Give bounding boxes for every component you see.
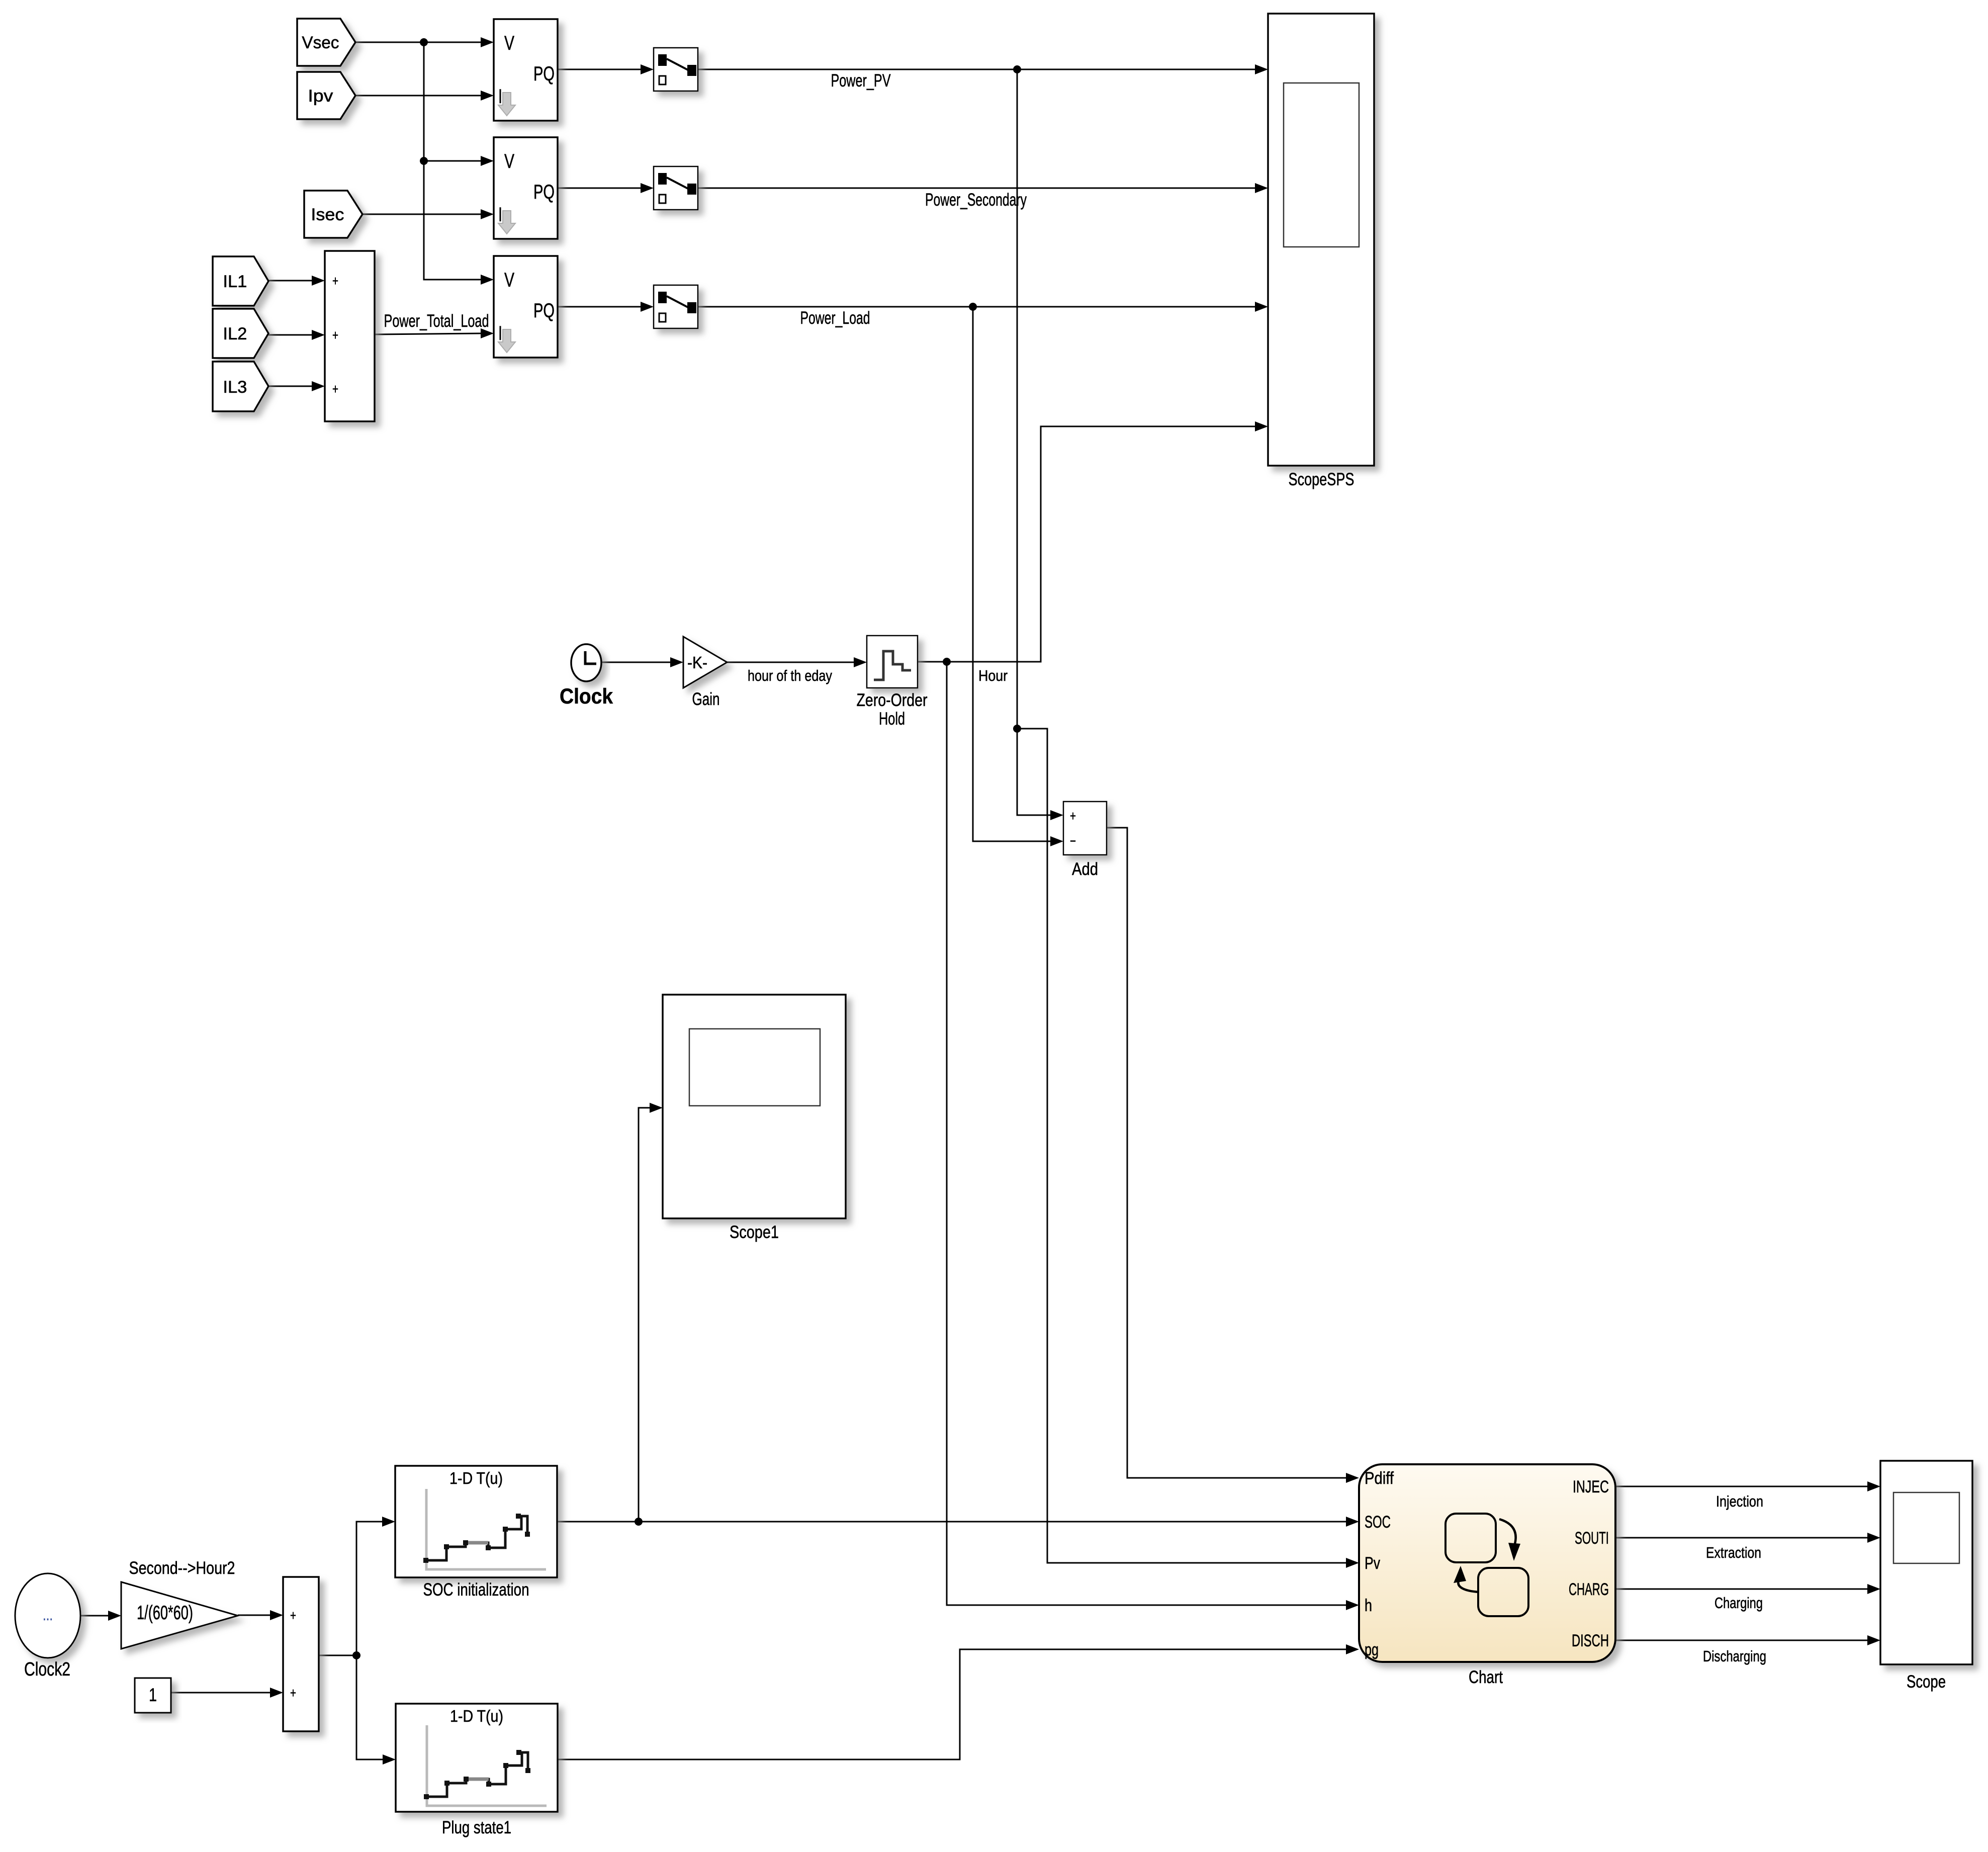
node Power_PV branch [1013, 65, 1021, 73]
svg-text:V: V [504, 269, 514, 291]
wire Power_Total_Load sum to PQ3 I [375, 333, 481, 334]
svg-text:Extraction: Extraction [1706, 1544, 1761, 1561]
svg-text:Charging: Charging [1714, 1594, 1763, 1612]
stateflow chart block [1359, 1464, 1615, 1662]
clock block Clock2 [15, 1573, 80, 1658]
svg-text:h: h [1365, 1596, 1372, 1615]
svg-text:Add: Add [1072, 859, 1098, 879]
node Hour to h branch [943, 658, 951, 666]
wire IL1 to sum [268, 280, 312, 282]
sum2 block adder [283, 1577, 319, 1731]
PQ block 3 power measurement Load [494, 256, 558, 358]
svg-text:1-D T(u): 1-D T(u) [450, 1707, 503, 1725]
svg-text:Ipv: Ipv [308, 86, 333, 106]
input port Isec [304, 191, 363, 238]
svg-text:ScopeSPS: ScopeSPS [1289, 470, 1354, 489]
svg-text:Power_Secondary: Power_Secondary [925, 190, 1027, 210]
svg-text:I: I [498, 85, 502, 108]
svg-text:PQ: PQ [533, 181, 555, 203]
sum block Power_Total_Load adder [325, 251, 375, 421]
wire Isec to PQ2 I [363, 214, 481, 215]
chart transition arrow down [1499, 1519, 1516, 1544]
svg-text:+: + [332, 381, 338, 397]
wire Chart INJEC to Scope in1, label Injection [1615, 1486, 1867, 1487]
gain block Gain -K- [683, 637, 727, 688]
svg-text:Hour: Hour [978, 667, 1008, 684]
svg-text:Injection: Injection [1716, 1492, 1763, 1510]
scope block Scope [1880, 1461, 1972, 1664]
node on Vsec wire [420, 38, 428, 46]
svg-text:Scope: Scope [1907, 1672, 1946, 1692]
svg-text:IL2: IL2 [223, 324, 247, 343]
svg-text:Pdiff: Pdiff [1365, 1469, 1394, 1488]
svg-text:Hold: Hold [879, 709, 905, 729]
wire Power_PV switch1 to ScopeSPS in1 [698, 69, 1255, 70]
node SOC to Scope1 branch [635, 1518, 643, 1526]
svg-text:SOC: SOC [1365, 1513, 1391, 1532]
svg-text:Plug state1: Plug state1 [442, 1818, 511, 1837]
wire IL2 to sum [268, 334, 312, 336]
scope block ScopeSPS [1268, 14, 1374, 466]
PQ block 2 power measurement Secondary [494, 137, 558, 239]
wire Clock to Gain [601, 662, 670, 663]
wire Chart DISCH to Scope in4, label Discharging [1615, 1640, 1867, 1641]
svg-text:Gain: Gain [692, 689, 720, 709]
svg-text:Vsec: Vsec [302, 33, 339, 52]
svg-text:hour of th eday: hour of th eday [748, 667, 832, 684]
wire Ipv to PQ1 I [355, 95, 481, 97]
wire Hour vertical to Chart h input [947, 662, 1346, 1605]
svg-text:1/(60*60): 1/(60*60) [137, 1602, 193, 1624]
svg-text:+: + [332, 273, 338, 289]
input port IL2 [213, 309, 268, 358]
svg-text:V: V [504, 32, 514, 54]
wire Plug state1 out to Chart pg [558, 1649, 1346, 1759]
add block with plus minus [1063, 802, 1107, 855]
wire vertical V-bus down from Vsec node [424, 42, 481, 280]
wire PQ1 out to switch1 [558, 69, 641, 70]
wire branch down to Plug state1 [356, 1655, 383, 1759]
wire branch to Chart Pv input [1017, 729, 1346, 1563]
wire Vsec to PQ V with branch node [355, 42, 481, 43]
svg-text:+: + [290, 1608, 296, 1623]
wire PQ2 out to switch2 [558, 188, 641, 189]
chart transition arrow up [1458, 1581, 1479, 1592]
svg-text:+: + [332, 327, 338, 343]
manual switch 2 [654, 166, 698, 210]
wire Power_Secondary switch2 to ScopeSPS in2 [698, 188, 1255, 189]
wire SOC initialization out to Chart SOC [557, 1521, 1346, 1523]
svg-text:Zero-Order: Zero-Order [857, 690, 928, 710]
svg-text:Pv: Pv [1365, 1554, 1380, 1573]
svg-text:SOUTI: SOUTI [1575, 1529, 1609, 1548]
constant block 1 [135, 1678, 171, 1713]
svg-text:Power_Total_Load: Power_Total_Load [384, 311, 489, 331]
input port Ipv [297, 72, 355, 119]
wire Constant 1 to sum2 plus2 [171, 1692, 270, 1694]
clock block Clock [571, 644, 601, 681]
wire branch up to SOC initialization [356, 1522, 382, 1655]
svg-text:Power_Load: Power_Load [800, 308, 870, 328]
lookup table Plug state1 [396, 1704, 558, 1812]
node sum2 branch [352, 1651, 360, 1659]
svg-text:...: ... [43, 1607, 53, 1624]
svg-text:Scope1: Scope1 [730, 1222, 779, 1242]
svg-text:DISCH: DISCH [1572, 1631, 1609, 1650]
wire Chart SOUTI to Scope in2, label Extraction [1615, 1537, 1867, 1539]
svg-text:+: + [1070, 808, 1076, 824]
input port IL3 [213, 362, 268, 411]
wire Power_PV vertical to Add plus [1017, 69, 1050, 815]
svg-text:IL3: IL3 [223, 378, 247, 397]
svg-text:Isec: Isec [311, 205, 344, 224]
svg-text:I: I [498, 204, 502, 226]
svg-text:Discharging: Discharging [1703, 1647, 1766, 1665]
wire V-bus branch to PQ2 V [424, 160, 481, 162]
svg-text:PQ: PQ [533, 63, 555, 85]
PQ block 1 power measurement PV [494, 19, 558, 121]
svg-text:Clock: Clock [560, 684, 613, 709]
wire Zero-Order Hold out Hour line [918, 426, 1255, 662]
wire Chart CHARG to Scope in3, label Charging [1615, 1589, 1867, 1590]
svg-text:pg: pg [1365, 1640, 1379, 1659]
zero-order hold block [867, 636, 918, 688]
wire Power_Load vertical to Add minus [973, 307, 1050, 841]
wire PQ3 out to switch3 [558, 306, 641, 308]
manual switch 3 [654, 285, 698, 328]
wire gain2 to sum2 plus1 [238, 1615, 270, 1616]
lookup table SOC initialization [395, 1466, 557, 1577]
svg-text:−: − [1070, 833, 1076, 849]
svg-text:1-D T(u): 1-D T(u) [449, 1469, 503, 1487]
svg-text:SOC initialization: SOC initialization [423, 1580, 529, 1600]
wire Clock2 to Second-Hour2 gain [80, 1615, 108, 1617]
scope block Scope1 [663, 995, 846, 1218]
wire IL3 to sum [268, 386, 312, 387]
svg-text:Chart: Chart [1469, 1667, 1503, 1687]
wire Gain to Zero-Order Hold, label hour of th eday [727, 662, 854, 663]
svg-text:1: 1 [149, 1685, 157, 1705]
input port IL1 [213, 256, 268, 306]
svg-text:Power_PV: Power_PV [831, 71, 891, 91]
wire Power_Load switch3 to ScopeSPS in3 [698, 306, 1255, 308]
svg-text:I: I [498, 322, 502, 344]
node Power_PV to Pv branch [1013, 725, 1021, 733]
svg-text:V: V [504, 150, 514, 172]
wire Add out to Chart Pdiff input [1107, 828, 1346, 1478]
svg-text:Clock2: Clock2 [24, 1659, 70, 1680]
svg-text:+: + [290, 1685, 296, 1701]
manual switch 1 [654, 48, 698, 91]
wire sum2 out with branch node [319, 1655, 356, 1656]
svg-text:PQ: PQ [533, 300, 555, 322]
svg-text:Second-->Hour2: Second-->Hour2 [129, 1558, 235, 1578]
svg-text:IL1: IL1 [223, 272, 247, 291]
chart state icon square 2 [1478, 1568, 1528, 1616]
wire SOC branch up to Scope1 [639, 1108, 650, 1522]
svg-text:CHARG: CHARG [1569, 1580, 1609, 1599]
svg-text:-K-: -K- [687, 653, 707, 672]
node Power_Load branch [969, 303, 977, 311]
chart state icon square 1 [1445, 1514, 1496, 1562]
svg-text:INJEC: INJEC [1573, 1477, 1609, 1496]
node V-bus to PQ2 [420, 157, 428, 165]
input port Vsec [297, 19, 355, 66]
gain block Second-Hour2 1/(60*60) [121, 1582, 238, 1649]
